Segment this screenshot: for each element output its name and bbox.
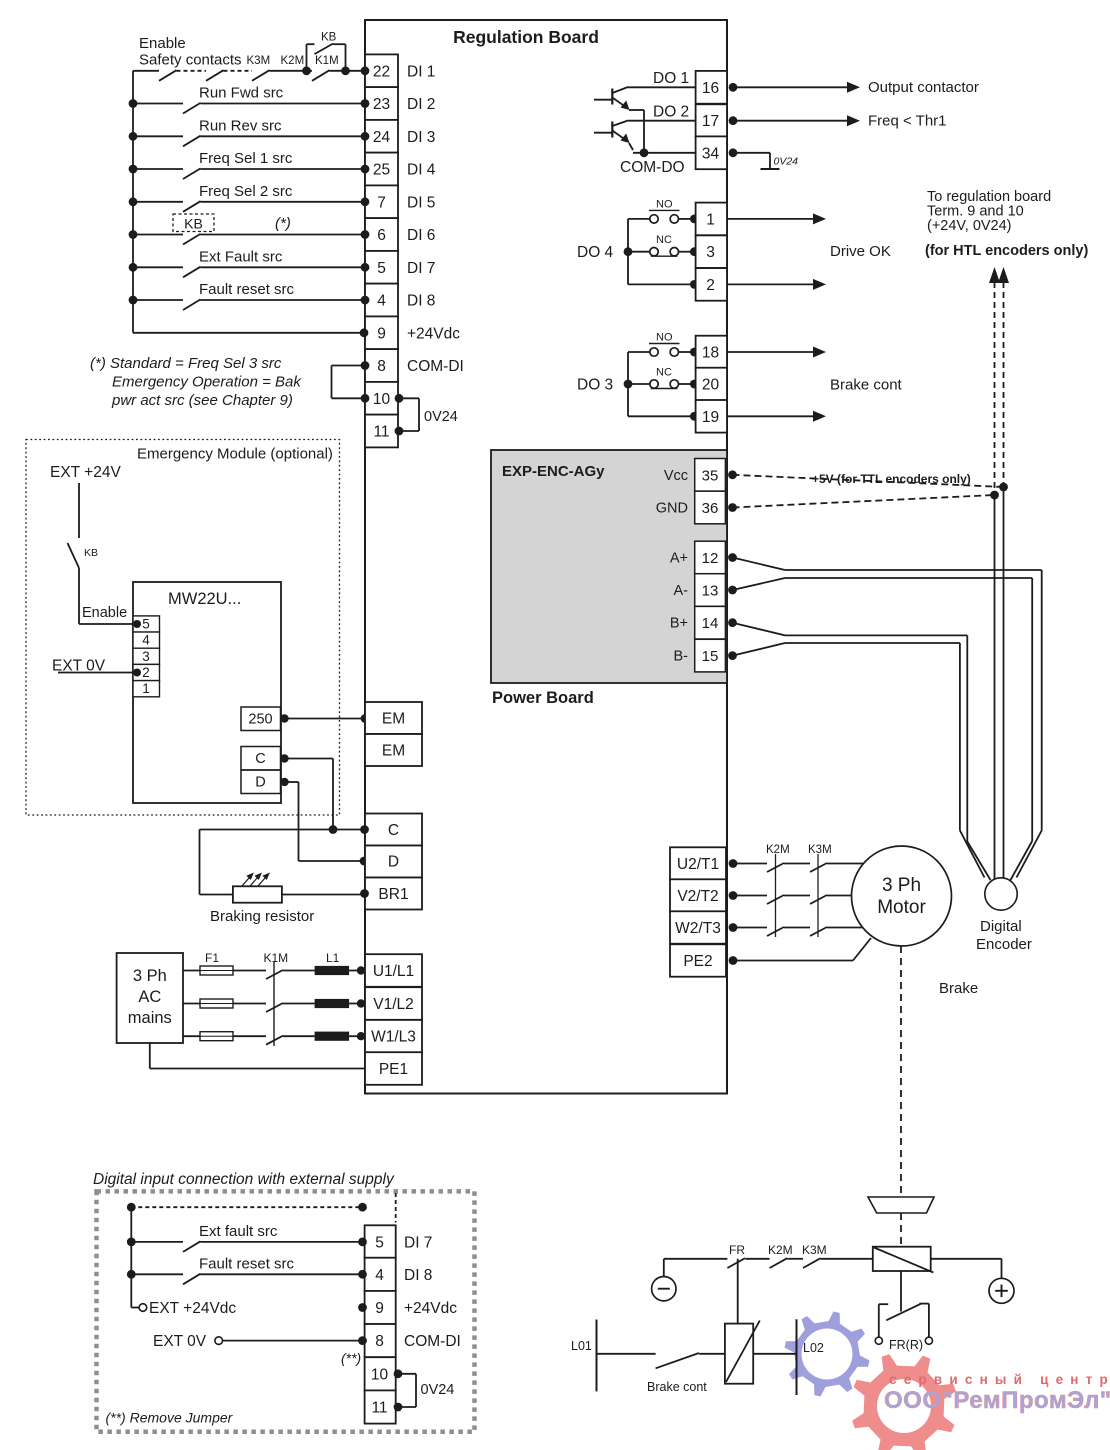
wire relay to L02	[753, 1353, 796, 1355]
svg-text:Digital: Digital	[980, 918, 1022, 935]
contact safety enable	[133, 70, 159, 72]
contact NC DO 3	[628, 383, 650, 385]
node terminal 24	[361, 132, 370, 141]
svg-text:BR1: BR1	[378, 886, 408, 903]
terminal bar L01	[596, 1320, 598, 1392]
terminal 16	[696, 71, 727, 104]
svg-text:AC: AC	[138, 988, 161, 1006]
svg-text:GND: GND	[656, 501, 688, 517]
contact K1M phase 2	[266, 1003, 283, 1012]
svg-text:Freq Sel 2 src: Freq Sel 2 src	[199, 183, 293, 200]
svg-text:MW22U...: MW22U...	[168, 590, 241, 608]
wire fuse to K1M	[233, 1003, 266, 1005]
terminal U1/L1	[365, 954, 422, 987]
supply plus	[989, 1278, 1014, 1303]
node terminal 8 ext	[358, 1336, 367, 1345]
contact KB bypass bracket	[306, 44, 308, 71]
svg-text:DI 7: DI 7	[404, 1234, 432, 1251]
node terminal 23	[361, 99, 370, 108]
svg-text:F1: F1	[205, 951, 219, 965]
wire jumper 10 to 11 (0V24)	[398, 397, 419, 399]
terminal 10 ext (0V24)	[365, 1357, 396, 1390]
svg-text:D: D	[388, 854, 399, 871]
contact FR	[727, 1258, 745, 1268]
terminal 24 (DI 3)	[365, 120, 398, 153]
terminal 9 ext (+24Vdc)	[365, 1291, 396, 1324]
node terminal 5 ext	[358, 1238, 367, 1247]
contact K2M	[767, 895, 784, 904]
svg-text:Brake cont: Brake cont	[647, 1380, 707, 1394]
svg-text:Digital input connection with: Digital input connection with external s…	[93, 1171, 395, 1188]
svg-text:PE2: PE2	[683, 953, 712, 970]
fuse F1 phase 2	[183, 1003, 200, 1005]
terminal C	[365, 814, 422, 846]
svg-text:Braking resistor: Braking resistor	[210, 908, 314, 925]
contact switch Freq Sel 1 src	[129, 165, 138, 174]
svg-text:L01: L01	[571, 1339, 592, 1353]
terminal V1/L2	[365, 987, 422, 1020]
svg-text:U2/T1: U2/T1	[677, 856, 719, 873]
svg-text:+24Vdc: +24Vdc	[407, 325, 460, 342]
svg-text:DI 7: DI 7	[407, 260, 435, 277]
svg-text:5: 5	[375, 1234, 384, 1251]
wire dashed trap to coil	[900, 1213, 902, 1247]
svg-text:KB: KB	[184, 216, 203, 232]
pin 5 MW22U	[133, 616, 160, 632]
brake shoe trapezoid	[868, 1197, 934, 1213]
svg-text:36: 36	[702, 500, 719, 517]
wire fuse to K1M	[233, 1035, 266, 1037]
terminal 9 (+24Vdc)	[365, 316, 398, 349]
svg-text:EXT +24V: EXT +24V	[50, 464, 121, 481]
terminal 8 ext (COM-DI)	[365, 1324, 396, 1357]
wire encoder supply down	[994, 495, 996, 879]
ground 0V24	[761, 168, 780, 170]
component 3Ph AC mains	[117, 953, 183, 1043]
node terminal 9	[360, 328, 369, 337]
svg-text:EM: EM	[382, 711, 405, 728]
svg-text:15: 15	[702, 648, 719, 665]
svg-text:Ext fault src: Ext fault src	[199, 1223, 278, 1240]
svg-text:(*): (*)	[275, 215, 291, 232]
svg-text:B-: B-	[674, 649, 689, 665]
contact switch Freq Sel 2 src	[129, 197, 138, 206]
wire motor phase y927.5	[733, 927, 767, 929]
contact K3M	[810, 895, 827, 904]
svg-text:DO 3: DO 3	[577, 377, 613, 394]
svg-text:3: 3	[706, 244, 715, 261]
svg-text:mains: mains	[128, 1009, 172, 1027]
svg-text:10: 10	[373, 391, 391, 408]
pin box D	[241, 770, 281, 794]
svg-text:DO 1: DO 1	[653, 70, 689, 87]
terminal EM 2	[365, 734, 422, 766]
wire ext bus	[130, 1207, 132, 1307]
watermark logo gear red	[852, 1354, 956, 1450]
svg-text:16: 16	[702, 80, 719, 97]
inductor L1 phase 1	[283, 970, 315, 972]
node terminal 4 ext	[358, 1270, 367, 1279]
svg-text:3 Ph: 3 Ph	[133, 967, 167, 985]
wire FR down to relay	[737, 1259, 739, 1324]
wire A+	[733, 558, 786, 571]
svg-text:Brake cont: Brake cont	[830, 377, 903, 394]
wire COM-DO	[633, 152, 696, 154]
svg-text:FR: FR	[729, 1243, 745, 1257]
contactor K1M link	[273, 962, 275, 1047]
svg-text:1: 1	[142, 681, 150, 696]
regulation board outline	[365, 20, 727, 1094]
terminal 22 (DI 1)	[365, 54, 398, 87]
contact NC DO 4	[628, 251, 650, 253]
terminal V2/T2	[670, 879, 726, 911]
terminal 7 (DI 5)	[365, 185, 398, 218]
svg-text:Safety contacts: Safety contacts	[139, 52, 242, 69]
wire common DO 3	[628, 415, 694, 417]
node junction KB left	[302, 66, 311, 75]
svg-text:Motor: Motor	[877, 897, 926, 918]
svg-text:Vcc: Vcc	[664, 468, 688, 484]
wire B+	[733, 623, 786, 636]
svg-text:11: 11	[371, 1400, 387, 1417]
wire motor phase y895.5	[733, 895, 767, 897]
svg-text:сервисный центр: сервисный центр	[889, 1372, 1110, 1387]
contact switch Ext Fault src	[129, 263, 138, 272]
svg-text:W2/T3: W2/T3	[675, 920, 721, 937]
pin 4 MW22U	[133, 632, 160, 648]
terminal 12 (A+)	[695, 541, 726, 574]
contact switch Run Rev src	[129, 132, 138, 141]
svg-text:K1M: K1M	[315, 55, 339, 67]
svg-text:2: 2	[142, 665, 150, 680]
contact K3M	[810, 927, 827, 936]
svg-text:B+: B+	[670, 616, 688, 632]
terminal 4 ext (DI 8)	[365, 1258, 396, 1291]
inductor L1 phase 2	[283, 1003, 315, 1005]
wire DO1 to 16	[628, 86, 696, 88]
svg-text:Freq Sel 1 src: Freq Sel 1 src	[199, 150, 293, 167]
svg-text:C: C	[255, 751, 265, 767]
terminal 34	[696, 136, 727, 169]
wire jumper 8 to 10	[332, 365, 366, 367]
wire 34 to 0V24	[733, 152, 770, 154]
wire left +24V bus	[132, 71, 134, 333]
wire fuse to K1M	[233, 970, 266, 972]
svg-text:EXP-ENC-AGy: EXP-ENC-AGy	[502, 463, 605, 480]
terminal 4 (DI 8)	[365, 284, 398, 317]
node EXT 0V open circle	[215, 1337, 223, 1345]
svg-text:Enable: Enable	[82, 605, 127, 621]
contact K3M	[810, 863, 827, 872]
svg-text:250: 250	[248, 712, 272, 728]
svg-text:(*) Standard = Freq Sel 3 src: (*) Standard = Freq Sel 3 src	[90, 355, 282, 372]
svg-text:6: 6	[377, 227, 386, 244]
svg-text:0V24: 0V24	[424, 409, 458, 425]
node terminal 4	[361, 296, 370, 305]
wire coil to plus	[931, 1258, 1002, 1260]
svg-text:7: 7	[377, 194, 386, 211]
wire dashed 0V24 riser	[1003, 282, 1005, 487]
terminal 3	[696, 235, 727, 268]
svg-text:Run Fwd src: Run Fwd src	[199, 85, 284, 102]
svg-text:24: 24	[373, 129, 391, 146]
terminal 1	[696, 203, 727, 236]
svg-text:Ext Fault src: Ext Fault src	[199, 248, 283, 265]
svg-text:L02: L02	[803, 1341, 824, 1355]
svg-text:22: 22	[373, 63, 390, 80]
wire output 17 arrow	[733, 120, 847, 122]
terminal 20	[696, 368, 727, 401]
wire enable to pin5	[79, 623, 133, 625]
contact Fault reset src	[127, 1270, 136, 1279]
transistor DO1	[594, 99, 612, 101]
wire minus to FR	[663, 1259, 665, 1277]
svg-text:DO 4: DO 4	[577, 244, 614, 261]
contact NO DO 3	[628, 351, 650, 353]
node junction KB right	[341, 66, 350, 75]
contact K2M	[767, 927, 784, 936]
terminal 11 ext (0V24)	[365, 1390, 396, 1423]
svg-text:1: 1	[706, 211, 715, 228]
terminal 18	[696, 336, 727, 369]
svg-text:C: C	[388, 822, 399, 839]
svg-text:DI 1: DI 1	[407, 63, 435, 80]
svg-text:NC: NC	[656, 234, 672, 246]
wire A-	[733, 578, 786, 590]
terminal 14 (B+)	[695, 606, 726, 639]
wire dashed ext supply top	[131, 1206, 362, 1208]
wire DO3 out 19 arrow	[727, 415, 813, 417]
svg-text:Fault reset src: Fault reset src	[199, 1255, 295, 1272]
node pin5	[133, 620, 141, 628]
svg-text:(**) Remove Jumper: (**) Remove Jumper	[106, 1410, 234, 1426]
svg-text:Enable: Enable	[139, 35, 186, 52]
svg-text:13: 13	[702, 583, 719, 600]
pin 3 MW22U	[133, 648, 160, 664]
wire jumper 10-11 ext	[396, 1373, 416, 1375]
terminal EM 1	[365, 702, 422, 734]
arrows overload braking resistor	[242, 876, 252, 887]
component digital encoder	[985, 878, 1017, 910]
contact K1M	[312, 70, 330, 81]
arrows HTL encoder supply	[989, 267, 1000, 283]
svg-text:ООО"РемПромЭл": ООО"РемПромЭл"	[884, 1387, 1110, 1414]
svg-text:4: 4	[377, 293, 386, 310]
wire PE2 to motor	[733, 960, 853, 962]
contact KB emergency	[68, 543, 80, 568]
svg-text:Emergency Module (optional): Emergency Module (optional)	[137, 446, 333, 463]
contact switch Fault reset src	[129, 296, 138, 305]
terminal 5 (DI 7)	[365, 251, 398, 284]
wire DO3 out 18 arrow	[727, 351, 813, 353]
svg-text:K1M: K1M	[264, 951, 289, 965]
svg-text:11: 11	[373, 424, 389, 441]
thermal contact FR(R)	[879, 1303, 888, 1305]
contact Brake cont	[656, 1353, 699, 1368]
wire D to terminal D	[280, 778, 288, 786]
module EXP-ENC-AGy	[491, 450, 727, 683]
node terminal 22	[361, 66, 370, 75]
svg-text:(+24V, 0V24): (+24V, 0V24)	[927, 218, 1012, 234]
wire C to terminal C	[280, 754, 288, 762]
wire dashed link	[224, 70, 253, 72]
transistor DO2	[594, 132, 612, 134]
node terminal 9 ext	[358, 1303, 367, 1312]
svg-text:Fault reset src: Fault reset src	[199, 281, 295, 298]
svg-text:DI 8: DI 8	[404, 1267, 432, 1284]
svg-text:DI 4: DI 4	[407, 162, 436, 179]
svg-text:NC: NC	[656, 367, 672, 379]
svg-text:A-: A-	[674, 583, 689, 599]
svg-text:U1/L1: U1/L1	[373, 963, 414, 980]
contact NO DO 4	[628, 218, 650, 220]
terminal 23 (DI 2)	[365, 87, 398, 120]
svg-text:DI 2: DI 2	[407, 96, 435, 113]
terminal 25 (DI 4)	[365, 153, 398, 186]
svg-text:3 Ph: 3 Ph	[882, 875, 921, 896]
terminal 2	[696, 268, 727, 301]
svg-text:K2M: K2M	[766, 844, 790, 856]
svg-text:DO 2: DO 2	[653, 104, 689, 121]
wire 250 to EM	[280, 714, 288, 722]
svg-text:2: 2	[706, 277, 715, 294]
svg-text:K2M: K2M	[768, 1243, 793, 1257]
terminal PE1	[365, 1052, 422, 1085]
wire dashed GND	[733, 495, 995, 508]
svg-text:4: 4	[142, 633, 150, 648]
terminal D	[365, 846, 422, 878]
svg-text:0V24: 0V24	[774, 156, 799, 168]
terminal 11 (0V24)	[365, 415, 398, 448]
svg-text:10: 10	[371, 1366, 389, 1383]
svg-text:NO: NO	[656, 198, 673, 210]
svg-text:14: 14	[702, 615, 719, 632]
svg-text:9: 9	[377, 325, 386, 342]
svg-text:V1/L2: V1/L2	[373, 996, 414, 1013]
terminal 15 (B-)	[695, 639, 726, 672]
svg-text:Output contactor: Output contactor	[868, 79, 979, 96]
supply minus	[652, 1277, 676, 1301]
svg-text:5: 5	[377, 260, 386, 277]
contact KB dashed box (DI6)	[173, 214, 214, 232]
svg-text:5: 5	[142, 617, 150, 632]
wire dashed +24V riser	[994, 282, 996, 495]
svg-text:+24Vdc: +24Vdc	[404, 1300, 457, 1317]
pin 2 MW22U	[133, 664, 160, 680]
svg-text:3: 3	[142, 649, 150, 664]
svg-text:W1/L3: W1/L3	[371, 1029, 416, 1046]
wire DO4 out 2 arrow	[727, 283, 813, 285]
fuse F1 phase 1	[183, 970, 200, 972]
contact K2M	[767, 863, 784, 872]
svg-text:KB: KB	[321, 32, 337, 44]
svg-text:EXT +24Vdc: EXT +24Vdc	[149, 1300, 236, 1317]
contact K3M	[206, 70, 224, 81]
svg-text:Encoder: Encoder	[976, 936, 1032, 953]
svg-text:V2/T2: V2/T2	[677, 888, 718, 905]
svg-text:34: 34	[702, 145, 720, 162]
terminal PE2	[670, 944, 726, 976]
node terminal 6	[361, 230, 370, 239]
terminal BR1	[365, 878, 422, 910]
contact switch Run Fwd src	[129, 99, 138, 108]
svg-text:19: 19	[702, 409, 719, 426]
svg-text:pwr act src (see Chapter 9): pwr act src (see Chapter 9)	[111, 392, 293, 409]
svg-text:Emergency Operation = Bak: Emergency Operation = Bak	[112, 374, 302, 391]
svg-text:8: 8	[377, 358, 386, 375]
wire DO4 out 1 arrow	[727, 218, 813, 220]
wire motor phase y863.5	[733, 863, 767, 865]
terminal bar L02	[796, 1319, 798, 1395]
svg-text:Drive OK: Drive OK	[830, 243, 891, 260]
svg-text:20: 20	[702, 377, 720, 394]
relay brake release	[725, 1324, 753, 1384]
watermark logo gear blue	[785, 1312, 870, 1397]
wire dashed riser right	[395, 1193, 397, 1223]
wire EXT0V to 8	[223, 1340, 365, 1342]
motor 3 Ph	[852, 846, 952, 946]
svg-text:EM: EM	[382, 743, 405, 760]
wire common DO 4	[628, 283, 694, 285]
wire DO2 to 17	[628, 120, 696, 122]
svg-text:(**): (**)	[341, 1350, 361, 1366]
contact Ext fault src	[127, 1238, 136, 1247]
pin box C	[241, 747, 281, 771]
svg-text:Brake: Brake	[939, 980, 978, 997]
svg-text:KB: KB	[84, 547, 98, 559]
svg-text:(for HTL encoders only): (for HTL encoders only)	[925, 243, 1088, 259]
pin box 250	[241, 707, 281, 731]
node terminal 7	[361, 197, 370, 206]
wire PE from mains	[149, 1043, 151, 1069]
svg-text:K3M: K3M	[802, 1243, 827, 1257]
wire dashed motor to brake	[900, 946, 902, 1196]
svg-text:L1: L1	[326, 951, 340, 965]
terminal U2/T1	[670, 847, 726, 879]
component MW22U module	[133, 582, 281, 803]
node terminal 5	[361, 263, 370, 272]
contactor K2M link	[775, 854, 777, 937]
svg-text:17: 17	[702, 113, 719, 130]
wire EXT+24V down	[78, 483, 80, 538]
svg-text:K2M: K2M	[281, 55, 305, 67]
terminal 6 (DI 6)	[365, 218, 398, 251]
svg-text:K3M: K3M	[247, 55, 271, 67]
contactor K3M link	[817, 854, 819, 937]
resistor braking	[233, 886, 282, 902]
svg-text:12: 12	[702, 550, 719, 567]
wire dashed Vcc	[733, 475, 1004, 487]
terminal 35 (Vcc)	[695, 459, 726, 492]
svg-text:DI 8: DI 8	[407, 293, 435, 310]
pin 1 MW22U	[133, 681, 160, 697]
svg-text:COM-DI: COM-DI	[404, 1333, 461, 1350]
svg-text:Power Board: Power Board	[492, 689, 594, 707]
contact switch KB (*)	[129, 230, 138, 239]
contact K2M	[252, 70, 270, 81]
node EXT +24Vdc open circle	[139, 1304, 147, 1312]
contact K2M brake	[770, 1258, 788, 1268]
svg-text:A+: A+	[670, 551, 688, 567]
terminal W1/L3	[365, 1020, 422, 1053]
svg-text:EXT 0V: EXT 0V	[153, 1333, 207, 1350]
wire B-	[733, 643, 786, 656]
svg-text:COM-DI: COM-DI	[407, 358, 464, 375]
node terminal 25	[361, 165, 370, 174]
terminal 5 ext (DI 7)	[365, 1225, 396, 1258]
svg-text:DI 5: DI 5	[407, 194, 435, 211]
svg-text:FR(R): FR(R)	[889, 1338, 923, 1352]
